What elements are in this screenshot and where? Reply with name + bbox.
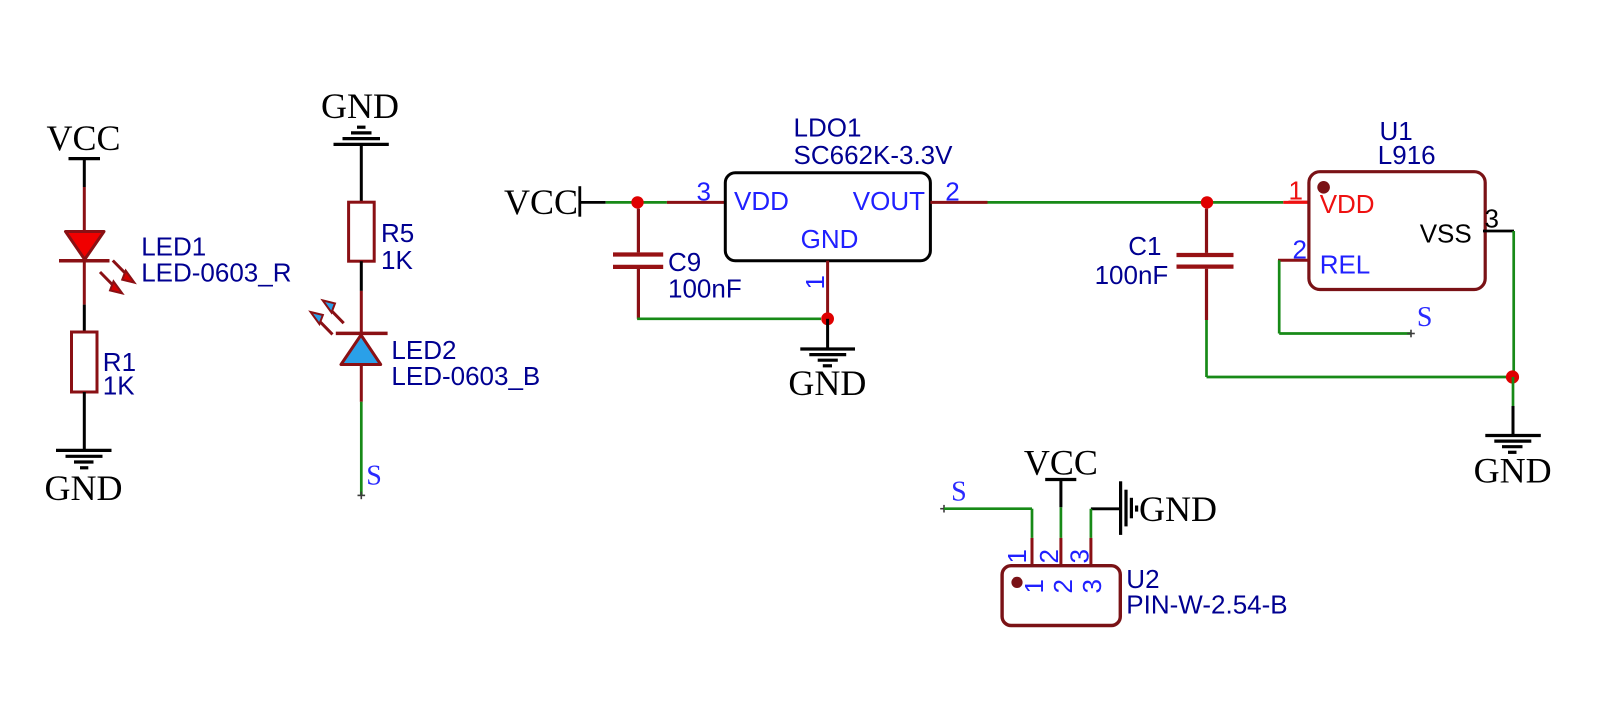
label LDO1 SC662K-3.3V — [794, 113, 954, 170]
svg-text:VSS: VSS — [1420, 219, 1472, 249]
pin number 2 (U2 outside, rotated) — [1034, 549, 1064, 563]
svg-text:VOUT: VOUT — [853, 186, 925, 216]
svg-text:REL: REL — [1320, 250, 1371, 280]
label LED2 LED-0603_B — [391, 335, 540, 391]
label R1 1K — [103, 347, 136, 401]
wire R5 to LED2 cathode — [360, 261, 363, 333]
pin number 1 (U2 outside, rotated) — [1002, 549, 1032, 563]
svg-text:VDD: VDD — [1320, 189, 1375, 219]
wire VSS to GND junction — [1512, 231, 1515, 377]
net flag GND (U2, horizontal) — [1121, 481, 1217, 535]
junction dot at VCC/C9 — [631, 196, 643, 208]
wire LDO VOUT to U1 VDD — [930, 201, 1309, 204]
svg-text:LED-0603_R: LED-0603_R — [141, 258, 291, 288]
wire LDO GND pin lead — [826, 261, 829, 319]
label U2 PIN-W-2.54-B — [1126, 564, 1287, 619]
svg-text:GND: GND — [801, 224, 859, 254]
wire S to U2 pin 1 — [944, 509, 1032, 567]
svg-text:L916: L916 — [1378, 140, 1436, 170]
pin number 3 (U2 outside, rotated) — [1065, 549, 1095, 563]
ground (LDO) — [788, 349, 866, 403]
wire VCC to LDO VDD — [580, 201, 726, 204]
label LED1 LED-0603_R — [141, 232, 291, 288]
pin 1 indicator dot U2 — [1011, 577, 1022, 588]
label C9 100nF — [668, 247, 742, 304]
wire junction to ground (LDO) — [826, 319, 829, 349]
wire U1 REL lead — [1278, 259, 1309, 262]
junction dot at U1 GND — [1506, 370, 1519, 383]
wire LED1 cathode to R1 — [83, 261, 86, 332]
port S (U1) — [1407, 302, 1432, 337]
svg-text:1: 1 — [1019, 579, 1049, 593]
port S (U2) — [940, 477, 966, 513]
pin number 2 (U2 inside, rotated) — [1048, 579, 1078, 593]
svg-text:GND: GND — [45, 468, 123, 508]
wire REL to port S — [1279, 260, 1411, 333]
wire GND to U2 pin 3 — [1091, 509, 1119, 567]
net flag VCC (LDO input) — [504, 182, 580, 222]
wire VCC to LED1 anode — [83, 187, 86, 232]
wire C9 to LDO GND junction — [637, 317, 821, 320]
svg-text:GND: GND — [1474, 451, 1552, 491]
wire U1 VSS lead — [1483, 230, 1514, 233]
svg-text:VCC: VCC — [504, 182, 578, 222]
svg-text:C1: C1 — [1128, 231, 1161, 261]
LED LED1 — [59, 232, 135, 294]
net flag VCC (U2) — [1024, 442, 1098, 507]
wire net S (branch 2) — [360, 402, 363, 496]
junction dot at LDO GND — [821, 312, 834, 325]
net flag VCC (left branch) — [46, 118, 120, 187]
svg-text:GND: GND — [788, 363, 866, 403]
ground (U1) — [1474, 436, 1552, 491]
connector U2 body — [1002, 566, 1120, 626]
ground (left branch) — [45, 450, 123, 508]
svg-text:VCC: VCC — [1024, 442, 1098, 482]
svg-text:3: 3 — [1485, 204, 1499, 234]
svg-text:1K: 1K — [381, 245, 413, 275]
capacitor C1 — [1177, 209, 1234, 320]
svg-text:GND: GND — [321, 86, 399, 126]
svg-text:GND: GND — [1139, 489, 1217, 529]
svg-text:LDO1: LDO1 — [794, 113, 862, 143]
wire VCC to U2 pin 2 — [1060, 507, 1063, 566]
svg-text:3: 3 — [697, 176, 711, 206]
transistor U1 body — [1309, 172, 1485, 290]
svg-text:2: 2 — [1048, 579, 1078, 593]
pin 1 indicator dot U1 — [1317, 181, 1330, 194]
LED LED2 — [311, 300, 388, 364]
label C1 100nF — [1095, 231, 1169, 290]
svg-text:VCC: VCC — [46, 118, 120, 158]
svg-text:SC662K-3.3V: SC662K-3.3V — [794, 140, 954, 170]
wire LED2 anode lead — [360, 365, 363, 402]
svg-text:LED-0603_B: LED-0603_B — [391, 361, 540, 391]
svg-text:1K: 1K — [103, 371, 135, 401]
svg-text:R5: R5 — [381, 218, 414, 248]
pin number 1 (U1 VDD) — [1289, 176, 1311, 206]
svg-text:S: S — [366, 461, 382, 492]
junction dot at VOUT/C1 — [1201, 196, 1213, 208]
svg-text:S: S — [951, 477, 967, 508]
svg-text:3: 3 — [1077, 579, 1107, 593]
wire GND to R5 — [360, 144, 363, 202]
svg-text:PIN-W-2.54-B: PIN-W-2.54-B — [1126, 589, 1287, 619]
label U1 L916 — [1378, 116, 1436, 170]
pin number 1 (LDO GND, rotated) — [800, 275, 830, 289]
resistor R5 — [349, 202, 375, 261]
net flag GND (branch 2 top) — [321, 86, 399, 144]
svg-text:1: 1 — [1002, 549, 1032, 563]
wire junction to ground (U1) — [1512, 377, 1515, 436]
svg-text:3: 3 — [1065, 549, 1095, 563]
wire C1 to GND net — [1207, 320, 1512, 377]
op-amp U LDO1 body — [725, 173, 930, 261]
resistor R1 — [72, 332, 98, 392]
svg-text:S: S — [1417, 302, 1433, 333]
label R5 1K — [381, 218, 414, 275]
capacitor C9 — [613, 209, 663, 319]
wire R1 to ground — [83, 392, 86, 450]
pin number 3 (U2 inside, rotated) — [1077, 579, 1107, 593]
pin number 1 (U2 inside, rotated) — [1019, 579, 1049, 593]
svg-text:1: 1 — [800, 275, 830, 289]
svg-text:100nF: 100nF — [668, 274, 742, 304]
svg-text:VDD: VDD — [734, 186, 789, 216]
svg-text:100nF: 100nF — [1095, 260, 1169, 290]
svg-text:C9: C9 — [668, 247, 701, 277]
svg-text:2: 2 — [1034, 549, 1064, 563]
port S (branch 2) — [358, 461, 382, 500]
